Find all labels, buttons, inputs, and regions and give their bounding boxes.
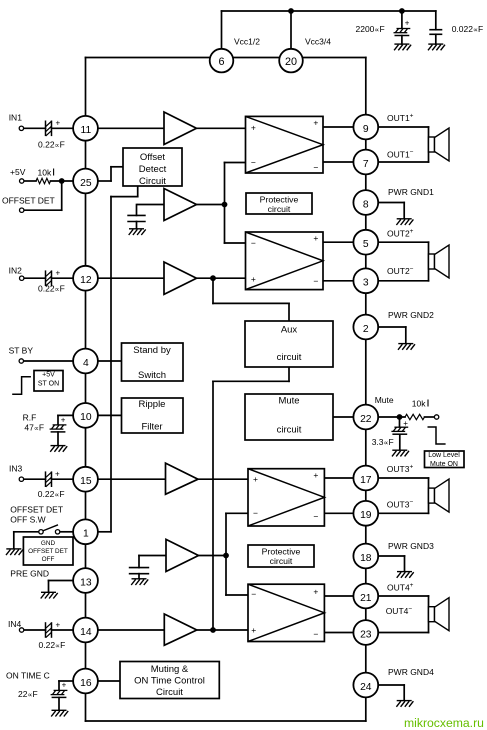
svg-text:ST BY: ST BY bbox=[9, 346, 34, 356]
svg-text:4: 4 bbox=[83, 358, 89, 369]
svg-text:PWR GND4: PWR GND4 bbox=[388, 667, 434, 677]
svg-text:OUT2−: OUT2− bbox=[387, 266, 414, 277]
svg-text:0.22∝F: 0.22∝F bbox=[38, 140, 65, 150]
svg-text:+: + bbox=[313, 470, 318, 480]
svg-text:24: 24 bbox=[360, 682, 372, 693]
svg-text:PWR GND3: PWR GND3 bbox=[388, 541, 434, 551]
svg-text:Mute: Mute bbox=[375, 395, 394, 405]
svg-text:IN3: IN3 bbox=[9, 464, 23, 474]
svg-text:3: 3 bbox=[363, 278, 369, 289]
svg-text:Vcc1/2: Vcc1/2 bbox=[234, 37, 260, 47]
svg-text:circuit: circuit bbox=[277, 425, 302, 436]
svg-text:14: 14 bbox=[80, 627, 92, 638]
svg-text:17: 17 bbox=[360, 475, 372, 486]
svg-text:18: 18 bbox=[360, 553, 372, 564]
svg-text:+: + bbox=[56, 268, 61, 277]
svg-text:−: − bbox=[251, 589, 256, 599]
svg-text:circuit: circuit bbox=[270, 556, 293, 566]
svg-text:Offset: Offset bbox=[140, 152, 166, 163]
svg-text:Detect: Detect bbox=[139, 164, 167, 175]
svg-text:OUT4+: OUT4+ bbox=[387, 582, 414, 593]
svg-text:OUT4−: OUT4− bbox=[386, 606, 413, 617]
svg-text:0.22∝F: 0.22∝F bbox=[38, 489, 65, 499]
svg-text:circuit: circuit bbox=[277, 352, 302, 363]
svg-text:+: + bbox=[61, 416, 66, 425]
svg-text:25: 25 bbox=[80, 178, 92, 189]
svg-text:Mute: Mute bbox=[278, 396, 299, 407]
svg-text:6: 6 bbox=[218, 56, 224, 68]
svg-text:OFFSET DET: OFFSET DET bbox=[10, 505, 63, 515]
svg-text:Circuit: Circuit bbox=[156, 687, 183, 698]
svg-text:−: − bbox=[313, 512, 318, 522]
svg-text:23: 23 bbox=[360, 629, 372, 640]
svg-text:+: + bbox=[56, 620, 61, 629]
svg-text:OFF S.W: OFF S.W bbox=[10, 515, 45, 525]
svg-text:+5V: +5V bbox=[42, 372, 55, 379]
svg-text:+: + bbox=[253, 474, 258, 484]
svg-text:12: 12 bbox=[80, 275, 92, 286]
svg-text:Mute ON: Mute ON bbox=[430, 461, 458, 468]
svg-text:ST ON: ST ON bbox=[38, 380, 59, 387]
svg-text:9: 9 bbox=[363, 124, 369, 135]
svg-text:IN2: IN2 bbox=[9, 266, 23, 276]
svg-text:PWR GND1: PWR GND1 bbox=[388, 187, 434, 197]
svg-text:PWR GND2: PWR GND2 bbox=[388, 310, 434, 320]
svg-text:OFF: OFF bbox=[42, 556, 55, 563]
svg-text:Low Level: Low Level bbox=[428, 452, 460, 459]
svg-text:21: 21 bbox=[360, 593, 372, 604]
svg-text:circuit: circuit bbox=[268, 204, 291, 214]
svg-text:PRE GND: PRE GND bbox=[10, 569, 49, 579]
svg-text:OFFSET DET: OFFSET DET bbox=[28, 548, 68, 555]
svg-text:OUT1+: OUT1+ bbox=[387, 113, 414, 124]
svg-text:2: 2 bbox=[363, 324, 369, 335]
svg-text:Ripple: Ripple bbox=[139, 399, 166, 410]
svg-text:16: 16 bbox=[80, 678, 92, 689]
svg-text:1: 1 bbox=[83, 529, 89, 540]
svg-text:−: − bbox=[313, 629, 318, 639]
svg-text:Filter: Filter bbox=[141, 422, 162, 433]
svg-text:−: − bbox=[253, 508, 258, 518]
svg-text:2200∝F: 2200∝F bbox=[356, 24, 385, 34]
svg-text:−: − bbox=[313, 162, 318, 172]
svg-text:OFFSET DET: OFFSET DET bbox=[2, 196, 55, 206]
svg-text:+: + bbox=[62, 681, 67, 690]
svg-text:+: + bbox=[251, 625, 256, 635]
svg-text:Protective: Protective bbox=[260, 195, 299, 205]
svg-text:R.F: R.F bbox=[23, 413, 37, 423]
svg-text:+: + bbox=[55, 470, 60, 479]
svg-text:22: 22 bbox=[360, 414, 372, 425]
svg-text:OUT3+: OUT3+ bbox=[387, 464, 414, 475]
svg-text:11: 11 bbox=[81, 125, 92, 136]
svg-text:GND: GND bbox=[41, 540, 56, 547]
svg-text:−: − bbox=[251, 238, 256, 248]
svg-text:Muting &: Muting & bbox=[151, 664, 189, 675]
svg-text:IN1: IN1 bbox=[9, 113, 23, 123]
svg-text:3.3∝F: 3.3∝F bbox=[372, 437, 394, 447]
svg-text:Switch: Switch bbox=[138, 370, 166, 381]
svg-text:+: + bbox=[405, 19, 410, 28]
svg-text:Vcc3/4: Vcc3/4 bbox=[305, 37, 331, 47]
svg-text:8: 8 bbox=[363, 199, 369, 210]
svg-text:IN4: IN4 bbox=[8, 619, 22, 629]
svg-text:10: 10 bbox=[80, 412, 92, 423]
svg-text:+: + bbox=[403, 419, 408, 428]
svg-text:0.22∝F: 0.22∝F bbox=[38, 284, 65, 294]
svg-text:Protective: Protective bbox=[262, 547, 301, 557]
svg-text:7: 7 bbox=[363, 159, 369, 170]
svg-text:ON TIME C: ON TIME C bbox=[6, 671, 50, 681]
svg-text:13: 13 bbox=[80, 577, 92, 588]
svg-text:−: − bbox=[251, 157, 256, 167]
svg-text:+: + bbox=[313, 233, 318, 243]
svg-text:10k: 10k bbox=[38, 168, 52, 178]
svg-text:15: 15 bbox=[80, 476, 92, 487]
svg-text:ON Time Control: ON Time Control bbox=[134, 676, 205, 687]
svg-text:Circuit: Circuit bbox=[139, 176, 166, 187]
svg-text:+: + bbox=[313, 587, 318, 597]
svg-text:10k: 10k bbox=[412, 399, 426, 409]
svg-text:5: 5 bbox=[363, 239, 369, 250]
svg-text:−: − bbox=[313, 276, 318, 286]
svg-text:Aux: Aux bbox=[281, 325, 298, 336]
svg-text:Stand by: Stand by bbox=[133, 345, 171, 356]
svg-text:OUT3−: OUT3− bbox=[387, 499, 414, 510]
svg-text:+: + bbox=[251, 274, 256, 284]
svg-text:OUT1−: OUT1− bbox=[387, 149, 414, 160]
svg-text:+: + bbox=[251, 122, 256, 132]
svg-text:+: + bbox=[313, 117, 318, 127]
svg-text:19: 19 bbox=[360, 510, 372, 521]
svg-text:20: 20 bbox=[285, 56, 297, 68]
svg-text:+5V: +5V bbox=[10, 167, 26, 177]
svg-text:mikrocxema.ru: mikrocxema.ru bbox=[404, 716, 484, 730]
svg-text:0.22∝F: 0.22∝F bbox=[39, 640, 66, 650]
svg-text:+: + bbox=[56, 119, 61, 128]
svg-text:OUT2+: OUT2+ bbox=[387, 228, 414, 239]
svg-text:0.022∝F: 0.022∝F bbox=[452, 24, 484, 34]
